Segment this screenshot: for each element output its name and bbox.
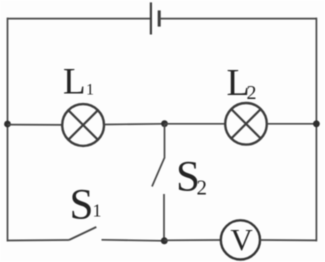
wire bottom-left segment <box>8 239 70 242</box>
svg-text:V: V <box>230 222 253 257</box>
wire middle-left segment <box>8 124 63 126</box>
switch S2 <box>152 124 165 241</box>
svg-text:S: S <box>70 182 94 229</box>
switch S1 <box>69 227 96 240</box>
wire between L2 and right junction <box>267 123 317 125</box>
svg-text:1: 1 <box>93 201 102 221</box>
label L2 <box>227 62 257 104</box>
label S2 <box>176 153 207 200</box>
wire top-left segment <box>8 18 151 20</box>
wire between L1 and middle node <box>104 123 165 126</box>
battery <box>151 2 159 34</box>
voltmeter V <box>221 220 260 259</box>
lamp L1 <box>62 104 104 146</box>
node middle junction <box>161 120 168 127</box>
lamp L2 <box>225 103 267 145</box>
wire bottom junction to voltmeter <box>164 239 221 241</box>
wire S1 to bottom junction <box>102 240 165 241</box>
svg-text:2: 2 <box>197 175 208 199</box>
label L1 <box>63 62 94 103</box>
wire between middle node and L2 <box>165 123 226 125</box>
wire right vertical <box>315 18 317 242</box>
node bottom junction <box>161 237 168 244</box>
svg-text:L: L <box>63 62 86 103</box>
svg-text:2: 2 <box>247 82 257 104</box>
node right junction <box>313 120 320 127</box>
node left junction <box>4 121 11 128</box>
label S1 <box>70 182 102 229</box>
svg-text:1: 1 <box>86 82 94 99</box>
wire left vertical <box>7 18 9 242</box>
wire voltmeter to bottom-right corner <box>260 239 316 241</box>
wire top-right segment <box>159 18 316 20</box>
